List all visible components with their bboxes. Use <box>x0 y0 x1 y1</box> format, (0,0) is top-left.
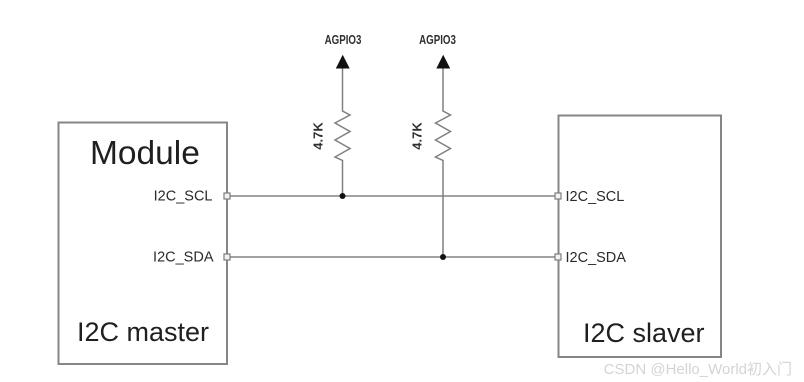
svg-text:I2C_SCL: I2C_SCL <box>566 189 625 205</box>
pin square U1 I2C_SDA <box>224 254 230 260</box>
svg-text:I2C_SCL: I2C_SCL <box>154 189 213 205</box>
pin square U1 I2C_SCL <box>224 193 230 199</box>
svg-text:AGPIO3: AGPIO3 <box>325 34 362 47</box>
svg-text:AGPIO3: AGPIO3 <box>419 34 456 47</box>
svg-text:I2C_SDA: I2C_SDA <box>566 250 627 266</box>
junction dot on SCL <box>340 193 346 199</box>
svg-text:4.7K: 4.7K <box>410 122 425 150</box>
svg-text:4.7K: 4.7K <box>311 122 326 150</box>
power arrow AGPIO3 (R2) <box>436 55 450 69</box>
resistor R2 4.7K (pull-up on SDA) <box>436 69 451 258</box>
svg-text:Module: Module <box>90 135 200 172</box>
svg-text:CSDN @Hello_World初入门: CSDN @Hello_World初入门 <box>604 361 792 378</box>
svg-text:I2C slaver: I2C slaver <box>583 318 705 348</box>
svg-text:I2C_SDA: I2C_SDA <box>153 250 214 266</box>
power arrow AGPIO3 (R1) <box>336 55 350 69</box>
module box U1 (I2C master) <box>59 123 228 365</box>
junction dot on SDA <box>440 254 446 260</box>
pin square U2 I2C_SDA <box>555 254 561 260</box>
svg-text:I2C master: I2C master <box>77 317 209 347</box>
wire SDA net <box>227 256 558 258</box>
pin square U2 I2C_SCL <box>555 193 561 199</box>
wire SCL net <box>227 195 558 197</box>
resistor R1 4.7K (pull-up on SCL) <box>335 69 350 197</box>
module box U2 (I2C slaver) <box>559 116 722 358</box>
